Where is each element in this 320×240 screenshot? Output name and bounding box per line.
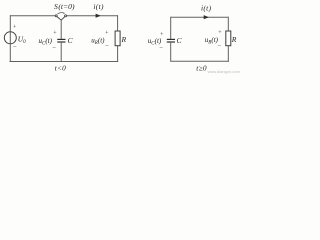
svg-text:R: R (121, 35, 127, 44)
svg-text:−: − (159, 45, 163, 52)
svg-text:t<0: t<0 (55, 64, 66, 73)
capacitor C (left circuit), top plate (57, 38, 65, 40)
voltage source U0 circle (4, 32, 16, 44)
capacitor C (left circuit), bottom plate (57, 41, 65, 43)
wire: switch pole down to capacitor (60, 20, 62, 39)
resistor R box, left circuit (115, 31, 120, 46)
switch S, right blade (61, 17, 65, 21)
wire: right circuit left side top (170, 17, 172, 40)
wire: left circuit right side top (117, 15, 119, 31)
svg-text:i(t): i(t) (201, 3, 212, 12)
svg-text:i(t): i(t) (93, 2, 104, 11)
svg-text:R: R (231, 35, 237, 44)
svg-text:−: − (52, 45, 56, 52)
svg-text:t≥0: t≥0 (196, 63, 207, 72)
wire: right circuit bottom (170, 60, 229, 62)
switch S, motion arc (57, 13, 63, 14)
svg-text:−: − (13, 44, 17, 51)
capacitor C (right circuit), top plate (167, 38, 175, 40)
svg-text:+: + (13, 25, 17, 31)
switch S, right contact circle (65, 15, 67, 17)
current arrow i(t), left circuit (96, 14, 101, 18)
wire: right circuit right side top (227, 17, 229, 31)
wire: left side through source (9, 15, 11, 61)
svg-text:−: − (105, 43, 109, 50)
current arrow i(t), right circuit (204, 15, 209, 19)
capacitor C (right circuit), bottom plate (167, 41, 175, 43)
wire: left circuit right side bottom (117, 46, 119, 62)
switch S, arc arrowhead (63, 12, 65, 14)
switch S, left contact circle (55, 15, 57, 17)
wire: left circuit bottom (10, 61, 119, 63)
resistor R box, right circuit (226, 31, 231, 46)
switch S, left blade (57, 17, 61, 21)
svg-text:−: − (217, 43, 221, 50)
svg-text:S(t=0): S(t=0) (54, 2, 75, 11)
svg-text:www.diangon.com: www.diangon.com (208, 69, 241, 74)
wire: capacitor to bottom wire (60, 42, 62, 62)
wire: right circuit top (171, 16, 229, 18)
wire: right circuit right side bottom (227, 46, 229, 62)
wire: left circuit top wire, source side (10, 15, 55, 17)
wire: right circuit left side bottom (170, 42, 172, 61)
wire: left circuit top wire, resistor side (67, 15, 118, 17)
